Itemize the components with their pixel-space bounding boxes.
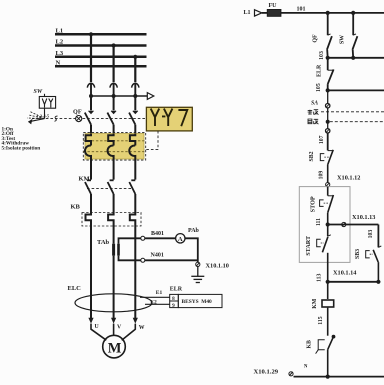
svg-text:X10.1.29: X10.1.29 xyxy=(254,369,279,376)
motor M xyxy=(103,335,126,358)
overload KB element A xyxy=(86,213,92,227)
svg-text:BESYS M40: BESYS M40 xyxy=(182,299,213,305)
mechanical linkage dashed line xyxy=(32,118,146,120)
svg-text:A: A xyxy=(178,236,183,243)
phase wires from buses xyxy=(91,34,135,82)
CT TAb secondary bar xyxy=(117,244,120,256)
wire phase B upper xyxy=(113,226,115,244)
terminal circle B401 xyxy=(141,236,145,240)
svg-text:107: 107 xyxy=(319,135,325,144)
svg-text:M: M xyxy=(108,341,122,357)
wire phase C down xyxy=(134,226,136,318)
dashed auto position xyxy=(330,121,384,123)
svg-text:105: 105 xyxy=(316,83,322,92)
coil KM xyxy=(322,282,334,336)
svg-text:KM: KM xyxy=(312,298,318,309)
svg-text:KB: KB xyxy=(306,340,312,349)
svg-text:103: 103 xyxy=(319,51,325,60)
CT phase A xyxy=(85,134,91,160)
svg-text:N: N xyxy=(56,60,61,67)
wire to SB2 xyxy=(327,133,329,150)
svg-text:E1: E1 xyxy=(156,290,163,296)
svg-text:X10.1.10: X10.1.10 xyxy=(206,263,229,270)
relay terminal block 8/9 xyxy=(170,294,179,307)
contactor KM pole A xyxy=(85,180,91,212)
junction dot tap A xyxy=(89,94,93,98)
drawout chevron phase C xyxy=(132,83,139,96)
drawout chevron phase B xyxy=(110,83,117,96)
wire N401 xyxy=(119,256,198,261)
wire to X10.1.13 xyxy=(328,224,379,226)
switch SW box xyxy=(39,94,55,119)
wire B401 xyxy=(119,238,176,243)
overload KB element B xyxy=(108,213,114,227)
svg-text:L1: L1 xyxy=(56,28,64,35)
dashed manual position xyxy=(321,111,384,113)
terminal X10.1.13 xyxy=(342,222,346,226)
linkage squiggle xyxy=(55,116,58,121)
overload KB element C xyxy=(130,213,136,227)
arrowhead phase B xyxy=(111,318,116,324)
svg-text:W: W xyxy=(139,325,145,331)
pushbutton STOP xyxy=(320,187,334,225)
junction dot tap B xyxy=(112,94,116,98)
junction node 105 xyxy=(326,88,330,92)
contactor KM pole C xyxy=(129,180,135,212)
svg-text:115: 115 xyxy=(318,316,324,324)
svg-text:B401: B401 xyxy=(151,231,164,237)
svg-text:N: N xyxy=(304,365,308,370)
svg-text:ELR: ELR xyxy=(170,287,183,293)
node 105 line xyxy=(328,89,384,91)
wire E2 xyxy=(145,303,170,305)
drawout chevron phase A xyxy=(87,83,94,96)
KM linkage dashes xyxy=(87,188,133,190)
svg-text:QF: QF xyxy=(73,109,82,116)
label manual (CJK strokes) xyxy=(308,110,319,115)
wire A to QF xyxy=(90,96,92,110)
L1 tap line to control circuit xyxy=(91,95,147,97)
svg-text:ELC: ELC xyxy=(68,285,82,292)
feed arrow xyxy=(255,10,262,16)
motor leads xyxy=(91,324,135,341)
junction dot SW branch xyxy=(351,11,355,15)
QF operating mechanism xyxy=(76,116,82,122)
svg-text:109: 109 xyxy=(319,171,325,180)
current transformer block (yellow) xyxy=(83,132,145,160)
svg-text:SW: SW xyxy=(34,89,43,95)
svg-text:SA: SA xyxy=(311,101,318,107)
svg-text:N401: N401 xyxy=(151,253,164,259)
neutral wire N xyxy=(294,376,384,378)
svg-text:L2: L2 xyxy=(56,39,64,46)
QF auxiliary contact block (yellow) xyxy=(146,107,192,131)
svg-text:L3: L3 xyxy=(56,50,64,57)
svg-text:SB3: SB3 xyxy=(355,249,361,259)
ground xyxy=(191,267,204,283)
CT phase B xyxy=(108,134,114,160)
remote branch wire xyxy=(377,225,379,248)
ammeter PAb xyxy=(176,234,185,243)
svg-text:STOP: STOP xyxy=(309,196,316,212)
terminal X10.1.29 xyxy=(289,372,293,376)
svg-text:PAb: PAb xyxy=(188,228,200,234)
wires into QF xyxy=(91,96,135,110)
arrow to control circuit xyxy=(147,93,154,100)
wire X10.1.14 xyxy=(328,281,379,283)
breaker QF pole C xyxy=(129,111,138,134)
control station box xyxy=(299,187,350,263)
junction SB branch bottom xyxy=(376,280,380,284)
svg-text:X10.1.13: X10.1.13 xyxy=(352,214,375,221)
relay BESYS M40 xyxy=(178,294,222,307)
svg-text:SB2: SB2 xyxy=(309,151,315,161)
label auto (CJK strokes) xyxy=(308,119,318,124)
svg-text:KB: KB xyxy=(71,204,81,211)
svg-text:L1: L1 xyxy=(244,10,251,16)
wire 101 xyxy=(281,12,384,14)
svg-text:5:Isolate position: 5:Isolate position xyxy=(2,146,41,152)
node 103 line xyxy=(328,57,384,59)
aux linkage dashed drop xyxy=(144,131,158,150)
wire phase A drop xyxy=(90,34,92,82)
svg-text:1·3·4·5: 1·3·4·5 xyxy=(37,114,50,119)
fuse FU xyxy=(262,3,281,16)
svg-text:X10.1.14: X10.1.14 xyxy=(333,269,357,276)
terminal circle N401 xyxy=(141,258,145,262)
pushbutton SB3 xyxy=(366,246,382,282)
svg-text:9: 9 xyxy=(172,303,175,309)
wires KB to ellipse xyxy=(91,226,135,318)
arrowhead phase C xyxy=(133,318,138,324)
junction node N xyxy=(326,375,330,379)
junction dot QF branch xyxy=(326,11,330,15)
svg-text:FU: FU xyxy=(269,3,278,9)
contact ELR xyxy=(328,58,334,91)
wires CT to KM xyxy=(91,159,135,180)
wire phase C drop xyxy=(134,57,136,82)
breaker QF pole B xyxy=(107,111,116,134)
junction dot L2 xyxy=(112,43,116,47)
wire ammeter to terminal xyxy=(185,238,198,262)
node 113 xyxy=(326,280,330,284)
wire phase B drop xyxy=(112,46,114,83)
node 111 xyxy=(326,222,330,226)
svg-text:111: 111 xyxy=(316,218,322,226)
wire phase A down xyxy=(90,226,92,318)
svg-text:8: 8 xyxy=(172,296,175,302)
contact KB overload xyxy=(316,336,335,377)
CT phase C xyxy=(129,134,135,160)
svg-text:101: 101 xyxy=(297,6,306,12)
contactor KM pole B xyxy=(108,180,114,212)
wire phase B lower xyxy=(113,256,115,318)
pushbutton SB2 xyxy=(320,150,333,183)
junction dot tap C xyxy=(133,94,137,98)
position dot auto xyxy=(326,120,330,124)
terminal X10.1.10 xyxy=(196,262,200,266)
pushbutton START xyxy=(317,225,331,282)
contact QF aux xyxy=(327,13,332,58)
bus L3 xyxy=(55,56,147,59)
overload KB dashed frame xyxy=(82,213,141,227)
svg-text:ELR: ELR xyxy=(316,64,322,77)
breaker QF pole A xyxy=(85,111,94,134)
arrowhead phase A xyxy=(88,318,93,324)
svg-text:103: 103 xyxy=(368,230,374,239)
core balance CT ellipse xyxy=(75,294,152,312)
wire E1 xyxy=(140,296,170,298)
svg-text:TAb: TAb xyxy=(97,239,110,246)
wire C to QF xyxy=(134,96,136,110)
svg-text:START: START xyxy=(305,235,312,256)
bus L2 xyxy=(55,44,147,47)
bus N xyxy=(55,65,147,68)
svg-text:113: 113 xyxy=(316,274,322,282)
svg-text:KM: KM xyxy=(79,176,90,183)
terminal X10.1.12 xyxy=(326,183,330,187)
svg-text:QF: QF xyxy=(313,34,319,43)
svg-text:SW: SW xyxy=(340,35,346,44)
junction dot L3 xyxy=(133,55,137,59)
CT TAb primary bar xyxy=(112,244,115,256)
svg-text:X10.1.12: X10.1.12 xyxy=(337,174,360,181)
svg-text:E2: E2 xyxy=(150,300,157,306)
wire B to QF xyxy=(113,96,115,110)
junction SW bottom xyxy=(351,56,355,60)
junction dot L1 xyxy=(89,32,93,36)
contact SW aux xyxy=(352,13,357,58)
junction node 103 xyxy=(326,56,330,60)
bus L1 xyxy=(55,33,147,36)
selector position fan xyxy=(27,112,45,124)
selector switch SA xyxy=(326,90,330,133)
